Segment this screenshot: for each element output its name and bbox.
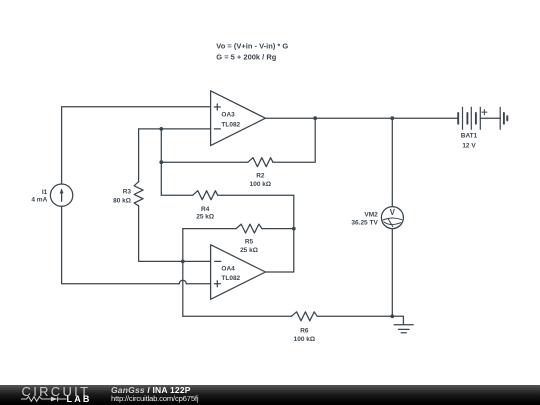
svg-text:R3: R3: [123, 188, 132, 195]
node: OA4 minus / hop column: [181, 260, 185, 264]
ground: [394, 324, 413, 326]
svg-text:VM2: VM2: [364, 211, 378, 218]
op-amp OA3: [211, 91, 266, 146]
wire: R4 row: [161, 194, 192, 196]
svg-text:OA4: OA4: [221, 266, 235, 273]
svg-text:Vo = (V+in - V-in) * G: Vo = (V+in - V-in) * G: [216, 41, 288, 50]
svg-text:25 kΩ: 25 kΩ: [196, 214, 214, 221]
node: R2 row / mid column: [159, 160, 163, 164]
svg-text:80 kΩ: 80 kΩ: [113, 197, 131, 204]
wire: R5 row: [183, 228, 236, 230]
wire: bottom row through R6 to ground: [183, 315, 292, 317]
svg-text:25 kΩ: 25 kΩ: [240, 247, 258, 254]
wire: I1 top to OA3 + input: [62, 107, 211, 184]
svg-text:G = 5 + 200k / Rg: G = 5 + 200k / Rg: [216, 52, 276, 61]
wire: mid column (OA3 - to R4 row): [160, 129, 162, 195]
svg-text:BAT1: BAT1: [461, 132, 478, 139]
wire: R4/R5 column down to OA4 output: [265, 229, 293, 272]
wire: R3 column top / OA3 - input row: [139, 128, 211, 130]
resistor R6: [291, 312, 317, 321]
node: output / VM column: [390, 116, 394, 120]
node: R5 row / R4 column: [292, 227, 296, 231]
resistor R5: [236, 224, 262, 233]
svg-text:100 kΩ: 100 kΩ: [294, 336, 315, 343]
svg-text:R2: R2: [256, 172, 265, 179]
svg-text:TL082: TL082: [221, 121, 240, 128]
svg-text:36.25 TV: 36.25 TV: [351, 220, 378, 227]
svg-text:R4: R4: [201, 206, 210, 213]
op-amp OA4: [211, 245, 266, 300]
wire: voltmeter column: [391, 118, 393, 206]
wire: hop column (R5 row to bottom row): [182, 229, 184, 317]
battery + sign: [482, 111, 487, 113]
footer bar: [0, 385, 540, 405]
svg-text:100 kΩ: 100 kΩ: [250, 181, 271, 188]
svg-text:R6: R6: [300, 328, 309, 335]
svg-text:I1: I1: [42, 189, 48, 196]
svg-text:12 V: 12 V: [462, 142, 476, 149]
current source I1: [50, 184, 72, 206]
node: output / R2 column: [313, 116, 317, 120]
wire: R2 feedback row: [161, 161, 248, 163]
logo squiggle (resistor + diode): [21, 394, 67, 404]
svg-text:R5: R5: [245, 238, 254, 245]
resistor R3: [134, 182, 143, 206]
svg-text:OA3: OA3: [221, 112, 235, 119]
wire: I1 bottom to OA4 + input (with hop over vertical): [62, 206, 180, 283]
svg-text:TL082: TL082: [221, 275, 240, 282]
battery BAT1: [457, 113, 459, 124]
voltmeter VM2: [381, 207, 403, 229]
wire hop: [179, 280, 186, 283]
resistor R2: [248, 158, 273, 167]
svg-text:V: V: [390, 208, 396, 217]
wire: R3 bottom to OA4 - input: [139, 206, 211, 262]
wire: OA3 output row to battery: [265, 117, 458, 119]
resistor R4: [193, 191, 218, 200]
node: OA3 minus / mid column: [159, 127, 163, 131]
logo CIRCUIT: [22, 385, 91, 398]
node: bottom row / VM column: [390, 314, 394, 318]
svg-text:4 mA: 4 mA: [31, 197, 47, 204]
